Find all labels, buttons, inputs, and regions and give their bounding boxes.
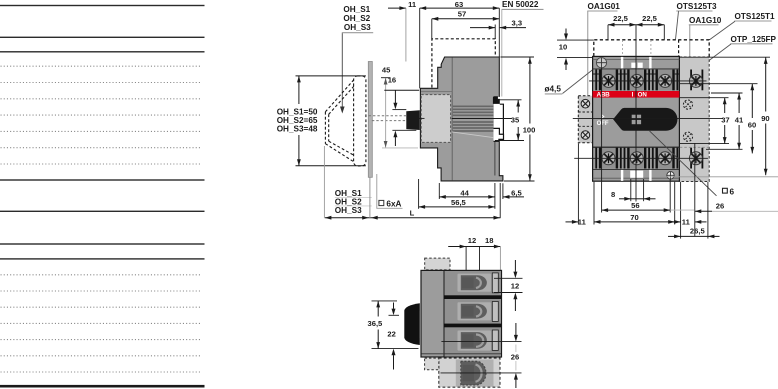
svg-text:L: L <box>410 208 415 217</box>
extension hidden screws (dashed) <box>683 100 692 109</box>
rail top hook <box>493 96 500 104</box>
rule line 7 <box>0 258 205 259</box>
rule line 1 <box>0 5 205 6</box>
bottom strip slots <box>621 170 623 181</box>
svg-text:OTS125T1: OTS125T1 <box>735 12 775 21</box>
svg-text:ABB: ABB <box>597 92 611 99</box>
svg-text:70: 70 <box>630 213 638 222</box>
svg-text:OA1G01: OA1G01 <box>588 2 621 11</box>
rotary handle (black) <box>613 108 677 131</box>
rule line 2 <box>0 37 205 38</box>
attachment screw bottom <box>581 131 590 140</box>
dimension OH_S1=50 block: top ref <box>296 75 366 77</box>
shaft spec box 6xA <box>377 174 403 208</box>
ref stub 37 top <box>680 97 729 99</box>
svg-text:3,3: 3,3 <box>512 19 523 28</box>
svg-text:18: 18 <box>485 236 493 245</box>
svg-text:ø4,5: ø4,5 <box>545 84 562 93</box>
leader EN50022 to DIN rail <box>501 10 503 97</box>
extension line (panel) <box>405 8 407 61</box>
fixing hole 4,5 <box>596 58 606 68</box>
svg-text:11: 11 <box>578 218 587 227</box>
pole 3 bottom terminal <box>652 148 678 169</box>
thick bottom rule <box>0 385 205 388</box>
dashed cover outline (front) <box>594 40 709 57</box>
body inner edge lower right <box>494 141 496 176</box>
svg-text:OH_S3: OH_S3 <box>344 23 371 32</box>
handle knob outline (dashed) <box>325 80 353 162</box>
pole row 3 terminal <box>458 330 499 351</box>
svg-text:11: 11 <box>682 218 691 227</box>
attachment screw top <box>581 99 590 108</box>
svg-text:OA1G10: OA1G10 <box>689 16 722 25</box>
pole 3 top terminal <box>652 70 678 91</box>
switch body (side) <box>420 57 503 181</box>
svg-text:6xA: 6xA <box>386 199 401 208</box>
svg-text:45: 45 <box>382 65 391 74</box>
top strip slots <box>621 57 623 69</box>
dotted row rules upper block <box>1 66 203 164</box>
pole separator 2 <box>444 324 502 328</box>
extension line (body left) <box>419 8 421 88</box>
mounting panel bar <box>368 62 372 178</box>
handle recess <box>421 95 450 143</box>
svg-text:36,5: 36,5 <box>368 319 384 328</box>
ref stub 41 bottom <box>706 148 743 150</box>
mould parting line <box>452 132 493 138</box>
svg-text:90: 90 <box>761 114 769 123</box>
svg-text:EN 50022: EN 50022 <box>502 0 539 9</box>
svg-text:6,5: 6,5 <box>511 189 522 198</box>
extension pole top terminal <box>689 70 703 91</box>
leader to handle knob <box>341 33 343 107</box>
pole 2 top terminal <box>624 70 650 91</box>
bottom fixing screw <box>667 172 674 179</box>
svg-text:12: 12 <box>468 236 476 245</box>
dotted row rules lower block <box>1 275 203 372</box>
ref stub 22 top <box>389 314 400 316</box>
extension pole bottom terminal <box>689 148 703 169</box>
svg-text:OTP_125FP: OTP_125FP <box>731 35 777 44</box>
label square 6 <box>723 188 728 193</box>
svg-text:OH_S2=65: OH_S2=65 <box>277 116 318 125</box>
pole 1 top terminal <box>595 70 621 91</box>
rule line 4 <box>0 179 205 180</box>
red switch band <box>593 91 680 98</box>
svg-text:100: 100 <box>523 125 536 134</box>
extension line panel <box>369 178 371 219</box>
body bottom inner line <box>422 353 502 355</box>
pole row 1 terminal <box>458 273 499 293</box>
svg-text:44: 44 <box>460 189 469 198</box>
ref line 12 top <box>494 277 523 279</box>
svg-text:OFF: OFF <box>597 121 609 127</box>
extension terminal <box>456 360 494 387</box>
operating shaft <box>406 110 420 130</box>
svg-text:8: 8 <box>611 190 615 199</box>
ref line 12 bottom <box>494 292 523 294</box>
body inner edge horizontal <box>421 91 452 93</box>
svg-text:22,5: 22,5 <box>613 14 629 23</box>
top dashed attachment box <box>425 258 450 270</box>
handle flange (dashed) <box>354 76 366 166</box>
extension line (body right) <box>498 8 500 57</box>
switch body (front) <box>593 56 680 181</box>
rail bottom clip <box>494 128 504 141</box>
terminal fins <box>453 106 494 131</box>
dashed terminal-cover outline <box>432 39 495 88</box>
svg-text:OH_S3=48: OH_S3=48 <box>277 125 318 134</box>
svg-text:41: 41 <box>735 115 744 124</box>
top strip lines <box>593 59 680 61</box>
ref stub 90 top <box>680 56 770 58</box>
body inner edge vertical <box>451 57 453 180</box>
svg-text:26,5: 26,5 <box>690 226 706 235</box>
pole 1 bottom terminal <box>595 148 621 169</box>
ref line bottom left <box>372 348 419 350</box>
svg-text:OH_S3: OH_S3 <box>335 206 362 215</box>
svg-text:60: 60 <box>748 120 756 129</box>
svg-text:I: I <box>632 92 634 99</box>
svg-text:OTS125T3: OTS125T3 <box>677 2 717 11</box>
left attachment OA1G01 <box>578 96 592 143</box>
svg-text:22: 22 <box>387 330 395 339</box>
bottom extension (dashed) <box>439 358 500 387</box>
DIN rail slot <box>494 97 504 141</box>
rule line 6 <box>0 243 205 244</box>
leader to square 6 <box>650 131 717 196</box>
svg-text:56,5: 56,5 <box>451 198 467 207</box>
svg-text:12: 12 <box>511 282 519 291</box>
ref stub 36,5 top <box>372 300 398 302</box>
bottom screws centre line <box>574 157 708 159</box>
svg-text:ON: ON <box>638 92 648 99</box>
pole separator 1 <box>444 295 502 299</box>
svg-text:56: 56 <box>631 201 639 210</box>
svg-text:22,5: 22,5 <box>642 14 658 23</box>
vertical dim line <box>298 76 300 104</box>
rule line 5 <box>0 211 205 212</box>
svg-text:11: 11 <box>408 0 417 9</box>
handle grid icon <box>632 115 636 119</box>
extension line knob face <box>323 146 325 218</box>
ref line 90 bottom (grey) <box>660 176 778 178</box>
OTP extension body <box>679 57 709 182</box>
ref line row3 centre <box>441 341 521 343</box>
label underline <box>342 32 373 34</box>
ref stub 60 top <box>680 83 758 85</box>
svg-text:10: 10 <box>559 43 567 52</box>
ref stub 37 bottom <box>680 143 729 145</box>
ref stub 41 top <box>711 92 743 94</box>
centre line 35 <box>452 118 512 120</box>
body (top view) <box>421 270 502 357</box>
pole 2 bottom terminal <box>624 148 650 169</box>
svg-text:37: 37 <box>721 115 729 124</box>
small dashed stub box <box>425 358 439 370</box>
top screws centre line <box>589 80 707 82</box>
svg-text:57: 57 <box>458 10 466 19</box>
svg-text:35: 35 <box>511 116 520 125</box>
shaft hidden lines <box>369 115 406 117</box>
OFF marking <box>601 115 603 119</box>
ref line extension centre <box>441 372 522 374</box>
svg-text:OH_S1: OH_S1 <box>343 5 370 14</box>
svg-text:6: 6 <box>730 187 735 196</box>
svg-text:OH_S2: OH_S2 <box>343 14 370 23</box>
handle centre line <box>573 118 723 120</box>
handle knob (top view) <box>404 303 420 345</box>
svg-text:26: 26 <box>511 353 519 362</box>
extension lines bottom <box>438 183 440 199</box>
bottom extension lines <box>577 143 579 224</box>
extension hidden strip line <box>680 146 709 148</box>
bottom strip lines <box>593 146 680 148</box>
svg-text:26: 26 <box>716 201 724 210</box>
pole row 2 terminal <box>458 302 499 322</box>
pole 2 centre line vertical <box>635 40 637 202</box>
svg-text:16: 16 <box>388 76 396 85</box>
bottom ref <box>296 165 366 167</box>
rule line 3 <box>0 51 205 52</box>
rail profile <box>500 104 504 134</box>
shaft centre tick <box>415 117 425 119</box>
